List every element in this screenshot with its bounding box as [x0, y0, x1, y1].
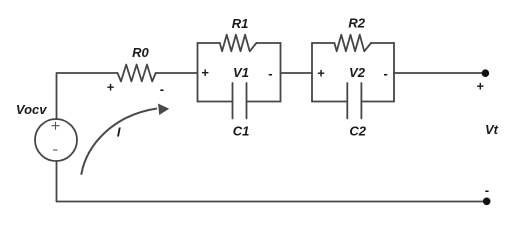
wire RC2 to positive terminal — [394, 72, 486, 74]
capacitor C1 plates — [233, 83, 247, 119]
resistor R2 — [334, 35, 371, 52]
RC2 right rail — [393, 43, 395, 102]
RC2 top edge wires — [312, 42, 394, 44]
bottom return wire — [57, 201, 487, 203]
svg-text:+: + — [477, 78, 485, 93]
svg-text:R2: R2 — [348, 16, 365, 31]
source + symbol — [52, 122, 60, 130]
current arrow head — [158, 104, 169, 116]
RC1 left rail — [197, 43, 199, 102]
svg-text:Vt: Vt — [485, 122, 499, 137]
svg-text:V2: V2 — [349, 65, 366, 80]
svg-text:+: + — [317, 65, 325, 80]
svg-text:C1: C1 — [233, 123, 250, 138]
source - symbol — [53, 149, 58, 151]
svg-text:R1: R1 — [232, 16, 249, 31]
svg-text:-: - — [160, 82, 164, 97]
resistor R1 — [220, 35, 257, 52]
RC2 bottom edge wires — [312, 101, 394, 103]
terminal node + (top right) — [482, 69, 490, 77]
svg-text:+: + — [107, 80, 115, 95]
svg-text:I: I — [117, 125, 121, 140]
terminal node - (bottom right) — [483, 198, 491, 206]
wire R0 to RC1 — [156, 72, 198, 74]
svg-text:V1: V1 — [233, 65, 249, 80]
RC2 left rail — [311, 43, 313, 102]
capacitor C2 plates — [347, 83, 361, 119]
wire source bottom — [56, 161, 58, 202]
wire top-left from source to R0 — [57, 73, 118, 119]
svg-text:Vocv: Vocv — [16, 102, 47, 117]
svg-text:-: - — [384, 66, 388, 81]
wire RC1 to RC2 — [281, 72, 313, 74]
svg-text:+: + — [201, 65, 209, 80]
RC1 bottom edge wires — [198, 101, 281, 103]
RC1 top edge wires — [198, 42, 281, 44]
svg-text:C2: C2 — [349, 123, 366, 138]
svg-text:-: - — [485, 183, 489, 198]
RC1 right rail — [280, 43, 282, 102]
svg-text:-: - — [268, 66, 272, 81]
svg-text:R0: R0 — [132, 45, 149, 60]
resistor R0 — [118, 65, 156, 82]
voltage source Vocv circle — [35, 119, 77, 161]
current arrow I arc — [81, 109, 157, 175]
